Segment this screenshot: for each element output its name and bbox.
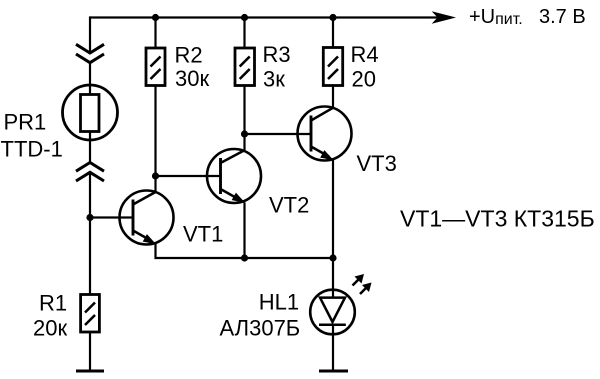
wire: node C up to R3 <box>243 86 245 135</box>
svg-text:R4: R4 <box>351 42 379 67</box>
wire: node B to VT2 base <box>156 175 222 177</box>
resistor R3 <box>235 48 255 86</box>
svg-text:+Uпит.: +Uпит. <box>469 6 523 28</box>
wire: R1 to ground <box>89 332 91 371</box>
wire: node C to VT3 base <box>245 133 313 135</box>
resistor R2 <box>146 48 165 86</box>
junction node: bottom rail / VT2 emitter <box>241 254 248 261</box>
wire: VT2 emitter to bottom rail <box>243 202 245 258</box>
svg-text:TTD-1: TTD-1 <box>1 137 63 162</box>
wire: HL1 cathode to ground <box>332 325 334 371</box>
junction node A: PR1 / R1 / VT1 base <box>86 214 93 221</box>
wire: rail to R3 <box>243 18 245 49</box>
sensor PR1 influence chevron bottom 2 <box>76 172 104 181</box>
LED HL1 light arrow 2 <box>360 283 372 295</box>
svg-text:3к: 3к <box>263 67 285 92</box>
wire: node A to VT1 base <box>89 216 133 218</box>
svg-text:VT3: VT3 <box>357 151 397 176</box>
svg-text:20к: 20к <box>33 316 67 341</box>
sensor PR1 inner resistive element <box>81 95 100 132</box>
transistor VT2 <box>207 149 261 203</box>
svg-text:30к: 30к <box>175 66 209 91</box>
wire: VT2 collector to node C <box>243 134 245 150</box>
transistor VT1 <box>120 191 174 245</box>
svg-text:R2: R2 <box>175 43 203 68</box>
LED HL1 light arrow 1 <box>353 274 365 286</box>
wire: top power rail <box>90 16 438 18</box>
junction node: bottom rail / VT3 emitter / HL1 <box>329 254 336 261</box>
LED HL1 body circle <box>310 290 355 335</box>
svg-text:HL1: HL1 <box>259 290 299 315</box>
wire: PR1 body to lower chevrons <box>89 132 91 164</box>
wire: R4 to VT3 collector <box>332 86 334 108</box>
wire: VT3 emitter down to bottom rail node <box>332 160 334 258</box>
sensor PR1 influence chevron top 1 <box>76 44 104 53</box>
sensor PR1 influence chevron top 2 <box>76 54 104 63</box>
svg-text:3.7 В: 3.7 В <box>539 6 586 28</box>
power arrow +U <box>432 11 456 24</box>
sensor PR1 influence chevron bottom 1 <box>76 163 104 172</box>
wire: R2 to node B <box>154 86 156 177</box>
svg-text:R3: R3 <box>263 42 291 67</box>
LED HL1 anode triangle <box>320 298 345 322</box>
wire: bottom emitter rail <box>156 257 334 259</box>
junction node C: R3 / VT2 collector / VT3 base <box>241 130 248 137</box>
svg-text:20: 20 <box>352 67 376 92</box>
svg-text:VT1—VT3 КТ315Б: VT1—VT3 КТ315Б <box>400 206 595 232</box>
svg-text:VT2: VT2 <box>269 193 309 218</box>
LED HL1 cathode bar <box>319 324 346 327</box>
junction node: rail / R4 <box>329 14 336 21</box>
wire: chevrons to PR1 body <box>89 63 91 95</box>
wire: rail to R2 <box>154 18 156 49</box>
resistor R4 <box>323 48 342 86</box>
ground bar under HL1 <box>319 370 348 373</box>
wire: VT1 collector to node B <box>154 176 156 192</box>
junction node: rail / R2 <box>152 14 159 21</box>
junction node B: R2 / VT1 collector / VT2 base <box>152 172 159 179</box>
svg-text:PR1: PR1 <box>4 110 47 135</box>
svg-text:VT1: VT1 <box>183 222 223 247</box>
ground bar under R1 <box>76 370 104 373</box>
svg-text:R1: R1 <box>39 291 67 316</box>
wire: bottom rail node to HL1 anode <box>332 258 334 298</box>
junction node: rail / R3 <box>241 14 248 21</box>
label +Uпит. 3.7 В <box>469 6 586 28</box>
wire: PR1 to node A and R1 <box>89 172 91 295</box>
wire: rail to R4 <box>332 18 334 48</box>
wire: rail down to PR1 <box>89 16 91 53</box>
resistor R1 <box>81 295 100 333</box>
sensor PR1 body circle <box>63 85 118 140</box>
wire: VT1 emitter down to bottom rail <box>154 244 156 259</box>
svg-text:АЛ307Б: АЛ307Б <box>220 316 301 341</box>
transistor VT3 <box>298 107 352 161</box>
